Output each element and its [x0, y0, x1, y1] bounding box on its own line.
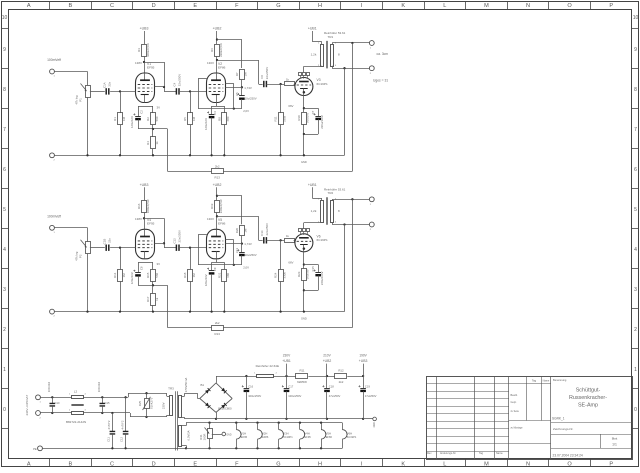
- capacitor C11 4n7/Y2: [106, 413, 115, 448]
- wire pot wiper to C1: [90, 247, 105, 249]
- terminal PE: [33, 446, 42, 451]
- svg-text:R25: R25: [138, 400, 142, 406]
- svg-text:+UB2: +UB2: [213, 183, 222, 187]
- resistor R4 1k to ground: [146, 129, 159, 155]
- svg-text:R10: R10: [297, 115, 301, 121]
- capacitor C10 100n/X2: [47, 381, 60, 413]
- wire V2 anode to C6: [217, 216, 263, 240]
- svg-text:zu Serie: zu Serie: [511, 410, 520, 413]
- svg-text:130V: 130V: [207, 61, 214, 65]
- svg-text:1/1: 1/1: [612, 442, 617, 446]
- svg-text:8: 8: [634, 87, 637, 93]
- svg-text:C10: C10: [55, 401, 60, 405]
- svg-text:V1H: V1H: [241, 431, 246, 435]
- wire cathode V1 tie: [138, 262, 160, 266]
- svg-text:Russenkracher-: Russenkracher-: [569, 395, 607, 401]
- svg-text:Zeichnungs-Nr.: Zeichnungs-Nr.: [553, 427, 574, 431]
- choke L2 B82722 common mode: [66, 390, 87, 424]
- svg-text:O: O: [567, 3, 572, 9]
- svg-text:100k/0,5W: 100k/0,5W: [146, 199, 150, 213]
- resistor R5 1M grid V2: [183, 91, 196, 155]
- svg-text:L: L: [443, 461, 446, 467]
- svg-text:L2: L2: [74, 390, 78, 394]
- svg-text:Änderungs-Nr.: Änderungs-Nr.: [440, 452, 456, 455]
- wire PE bus: [42, 447, 186, 449]
- svg-text:7: 7: [3, 127, 6, 133]
- svg-text:6C19P1: 6C19P1: [347, 435, 357, 439]
- resistor R20 1M screen: [226, 226, 252, 247]
- capacitor C18 47u/250V: [322, 376, 340, 419]
- svg-text:Tag: Tag: [479, 452, 484, 455]
- svg-text:230V: 230V: [162, 402, 166, 409]
- svg-text:9: 9: [3, 47, 6, 53]
- wire secondary bottom: [332, 67, 369, 155]
- choke L1 Reinhoefer 42.64E: [254, 364, 296, 378]
- terminal input J2: [50, 225, 56, 233]
- potentiometer P2 47k log: [75, 240, 91, 261]
- svg-text:560: 560: [155, 116, 159, 121]
- svg-text:GND: GND: [374, 422, 376, 427]
- varistor R25 S10K275: [138, 393, 153, 417]
- svg-text:F: F: [235, 461, 239, 467]
- svg-text:R20: R20: [235, 228, 239, 234]
- resistor R11 6k8/5W dropper: [296, 369, 335, 385]
- terminal speaker - (ch2): [369, 222, 374, 231]
- svg-text:100n/X2: 100n/X2: [47, 381, 51, 392]
- wire TR3 HV secondary bottom: [182, 417, 216, 419]
- heater filament V3H 6C19P1: [279, 423, 294, 449]
- svg-text:4: 4: [634, 247, 637, 253]
- svg-text:+UB2: +UB2: [213, 27, 222, 31]
- wire input to pot: [54, 72, 87, 86]
- svg-text:R12: R12: [338, 369, 344, 373]
- wire g3 V2: [226, 84, 234, 109]
- resistor R12 2k2 dropper: [335, 369, 365, 385]
- svg-text:ca. 3cm: ca. 3cm: [377, 52, 389, 56]
- svg-text:10u/250V: 10u/250V: [245, 253, 257, 257]
- svg-text:100u/250V: 100u/250V: [248, 394, 261, 398]
- heater filament V2H EF86: [258, 423, 269, 449]
- heater filament V1H EF95: [236, 423, 247, 449]
- svg-text:S10K275: S10K275: [149, 397, 153, 409]
- wire shield box V2: [198, 235, 242, 267]
- svg-text:M: M: [484, 3, 489, 9]
- svg-text:C12: C12: [173, 238, 177, 244]
- capacitor C12 22n/250V coupling: [164, 230, 182, 251]
- wire V2 cathode: [212, 103, 225, 107]
- wire pot to ground: [87, 254, 89, 312]
- svg-text:130V: 130V: [207, 217, 214, 221]
- svg-text:120u/16V: 120u/16V: [204, 274, 208, 286]
- capacitor C12 4n7/Y2: [120, 397, 129, 448]
- svg-text:Tag: Tag: [532, 379, 537, 383]
- capacitor C1A 22n input: [102, 81, 111, 94]
- svg-text:10: 10: [2, 15, 8, 21]
- svg-text:G: G: [276, 3, 280, 9]
- svg-text:E: E: [193, 3, 197, 9]
- rectifier bridge B1 B250C800: [200, 383, 232, 413]
- svg-text:2: 2: [634, 327, 637, 333]
- svg-text:3V: 3V: [157, 106, 161, 110]
- svg-text:R8: R8: [217, 117, 221, 121]
- svg-text:Rev: Rev: [427, 452, 432, 455]
- svg-text:SGRK_1: SGRK_1: [552, 417, 565, 421]
- svg-text:GND: GND: [226, 434, 231, 436]
- svg-text:R1: R1: [113, 117, 117, 121]
- wire shield box V2: [198, 79, 242, 110]
- svg-text:1M: 1M: [122, 273, 126, 278]
- svg-text:9: 9: [634, 47, 637, 53]
- svg-text:3: 3: [3, 287, 6, 293]
- svg-text:C8: C8: [140, 266, 144, 270]
- resistor R16 100k/0.5W anode V4: [137, 199, 150, 213]
- svg-text:C: C: [110, 3, 114, 9]
- svg-text:L: L: [443, 3, 446, 9]
- svg-text:V4H: V4H: [305, 431, 310, 435]
- resistor R10 560/5W cathode V3: [297, 113, 310, 156]
- svg-text:B: B: [69, 3, 73, 9]
- resistor R23 560/5W cathode V3: [297, 269, 310, 312]
- svg-text:2,0V: 2,0V: [243, 265, 249, 269]
- resistor R7 1M screen: [226, 70, 252, 90]
- svg-text:220k/0,5W: 220k/0,5W: [219, 199, 223, 213]
- svg-text:330k: 330k: [282, 272, 286, 279]
- svg-text:R13: R13: [215, 332, 221, 336]
- wire secondary top: [332, 42, 369, 171]
- svg-text:4: 4: [3, 247, 6, 253]
- svg-text:Bearb.: Bearb.: [511, 394, 519, 397]
- svg-text:2: 2: [3, 327, 6, 333]
- svg-text:Gepr.: Gepr.: [511, 401, 517, 404]
- svg-text:100n/X2: 100n/X2: [97, 381, 101, 392]
- wire V3 cathode node: [288, 252, 318, 272]
- svg-text:190V: 190V: [359, 354, 367, 358]
- net label +UB3 (ch1): [140, 27, 149, 45]
- svg-text:4n7/Y2: 4n7/Y2: [120, 420, 124, 429]
- svg-text:R3: R3: [137, 48, 141, 52]
- svg-text:V5H: V5H: [326, 431, 331, 435]
- svg-text:EF95: EF95: [241, 435, 248, 439]
- svg-text:210V: 210V: [323, 354, 331, 358]
- svg-text:C19: C19: [365, 385, 370, 389]
- resistor R2 560 cathode: [146, 106, 159, 129]
- heater filament V4H EF95: [300, 423, 312, 449]
- resistor R21 680 cathode V2: [217, 262, 230, 311]
- svg-text:R17: R17: [146, 296, 150, 302]
- wire ground bus (ch1): [54, 154, 344, 164]
- svg-text:Schüttgut-: Schüttgut-: [576, 387, 601, 393]
- title block outline: [426, 376, 633, 460]
- svg-text:C15: C15: [311, 266, 315, 272]
- capacitor C5 10u/250V screen: [235, 87, 257, 113]
- wire anode node: [143, 56, 165, 91]
- svg-text:A: A: [27, 461, 31, 467]
- svg-text:22n: 22n: [107, 81, 111, 86]
- wire g3 V2: [226, 240, 234, 265]
- capacitor C3 120u/16V cathode V2: [204, 106, 217, 155]
- wire secondary bottom: [332, 223, 369, 311]
- wire bridge minus to ground bus: [215, 412, 364, 420]
- net label +UB3 (psu): [359, 354, 368, 376]
- wire after choke bottom: [84, 412, 167, 418]
- wire TR primary to V3 anode: [304, 222, 322, 224]
- svg-text:6,3V/3A: 6,3V/3A: [186, 430, 190, 440]
- svg-text:6C19P1: 6C19P1: [317, 82, 328, 86]
- title block right area: [551, 378, 632, 458]
- capacitor C19 47u/250V: [359, 376, 377, 419]
- svg-text:560/5W: 560/5W: [306, 269, 310, 279]
- wire C1 to grid node: [110, 247, 135, 249]
- svg-text:6C19P1: 6C19P1: [283, 435, 293, 439]
- resistor R9 1k grid stopper: [285, 78, 296, 86]
- svg-text:P: P: [609, 461, 613, 467]
- capacitor C4 22n/250V coupling: [164, 74, 182, 95]
- svg-text:47u/250V: 47u/250V: [329, 394, 341, 398]
- svg-text:EF86: EF86: [218, 222, 226, 226]
- svg-text:330k: 330k: [282, 115, 286, 122]
- wire screen V1 to anode: [155, 86, 165, 88]
- terminal mains L: [36, 395, 42, 404]
- wire C6 to grid stopper: [266, 239, 284, 241]
- svg-text:120u/16V: 120u/16V: [130, 272, 134, 284]
- svg-text:+UB2: +UB2: [323, 359, 332, 363]
- svg-text:O: O: [567, 461, 572, 467]
- resistor R24 330k grid V3: [274, 240, 287, 311]
- svg-text:C5: C5: [235, 92, 239, 96]
- svg-text:10u/250V: 10u/250V: [245, 97, 257, 101]
- svg-text:R2: R2: [146, 117, 150, 121]
- svg-text:66V: 66V: [288, 261, 293, 265]
- heater filament V6H 6C19P1: [342, 423, 357, 449]
- svg-text:3: 3: [634, 287, 637, 293]
- terminal speaker - (ch1): [369, 66, 374, 75]
- transformer TR2 Reinhoefer 53.61: [311, 187, 346, 224]
- svg-text:C1A: C1A: [102, 82, 106, 88]
- svg-text:680: 680: [226, 116, 230, 121]
- svg-text:C2: C2: [140, 110, 144, 114]
- svg-text:0: 0: [3, 407, 6, 413]
- wire heater bottom rail: [186, 447, 342, 449]
- wire V2 cathode: [212, 259, 225, 263]
- resistor R13 2k2 feedback: [168, 321, 353, 336]
- svg-text:120u/16V: 120u/16V: [130, 116, 134, 128]
- svg-text:R11: R11: [299, 369, 304, 373]
- net label +UB2 (psu): [323, 354, 332, 376]
- net label +UB1 (ch1): [308, 27, 322, 42]
- svg-text:1M: 1M: [192, 116, 196, 121]
- svg-text:C12: C12: [120, 437, 124, 442]
- resistor R3 100k/0.5W anode V1: [137, 43, 150, 57]
- tube V2 EF86: [207, 62, 226, 103]
- svg-text:R23: R23: [297, 271, 301, 277]
- svg-text:H: H: [318, 461, 322, 467]
- svg-text:N: N: [526, 461, 530, 467]
- svg-text:230V: 230V: [283, 354, 291, 358]
- svg-text:220u/100V: 220u/100V: [320, 271, 324, 285]
- svg-text:6: 6: [3, 167, 6, 173]
- svg-text:R6: R6: [210, 48, 214, 52]
- svg-text:+UB3: +UB3: [140, 183, 149, 187]
- svg-text:5: 5: [634, 207, 637, 213]
- svg-text:1,74V: 1,74V: [244, 242, 252, 246]
- svg-text:22n: 22n: [107, 238, 111, 243]
- svg-text:2,0V: 2,0V: [243, 109, 249, 113]
- svg-text:100mVeff: 100mVeff: [47, 214, 61, 218]
- svg-text:1: 1: [634, 367, 637, 373]
- capacitor C9 120u/16V cathode V2: [204, 262, 217, 311]
- svg-text:6C19P1: 6C19P1: [317, 238, 328, 242]
- svg-text:EF86: EF86: [326, 435, 333, 439]
- svg-text:560: 560: [155, 272, 159, 277]
- svg-text:R7: R7: [235, 72, 239, 76]
- svg-text:138V: 138V: [135, 217, 142, 221]
- svg-text:R14: R14: [113, 272, 117, 278]
- svg-text:8: 8: [3, 87, 6, 93]
- resistor R17 1k to ground: [146, 285, 159, 311]
- svg-text:B250C800: B250C800: [218, 406, 232, 410]
- capacitor C16 100u/250V reservoir: [242, 376, 262, 419]
- svg-text:C1B: C1B: [102, 239, 106, 245]
- svg-text:2k2: 2k2: [215, 321, 220, 325]
- wire pot to ground: [87, 97, 89, 155]
- svg-text:H: H: [318, 3, 322, 9]
- svg-text:22n/250V: 22n/250V: [265, 223, 269, 235]
- svg-text:R18: R18: [183, 272, 187, 278]
- terminal input ground (ch2): [50, 309, 56, 318]
- svg-text:R21: R21: [217, 272, 221, 278]
- resistor R13 2k2 feedback: [168, 165, 353, 180]
- net label +UB1 (psu): [282, 354, 291, 376]
- svg-text:+UB3: +UB3: [140, 27, 149, 31]
- wire input to pot: [54, 228, 87, 242]
- terminal mains N: [36, 411, 42, 420]
- resistor R15 560 cathode: [146, 262, 159, 285]
- capacitor C15 220u/100V cathode bypass: [304, 266, 324, 291]
- tube V1 EF95: [136, 62, 155, 103]
- svg-text:C14: C14: [260, 230, 264, 236]
- svg-text:D: D: [152, 3, 156, 9]
- svg-text:P1: P1: [78, 98, 82, 102]
- wire C1 to grid node: [110, 90, 135, 92]
- wire C6 to grid stopper: [266, 83, 284, 85]
- ground flag psu: [363, 417, 376, 427]
- svg-text:EF95: EF95: [147, 222, 155, 226]
- svg-text:7: 7: [634, 127, 637, 133]
- svg-text:A: A: [27, 3, 31, 9]
- svg-text:EF95: EF95: [147, 65, 155, 69]
- svg-text:47u/250V: 47u/250V: [365, 394, 377, 398]
- svg-text:V6H: V6H: [347, 431, 352, 435]
- svg-text:B1: B1: [201, 383, 205, 387]
- svg-text:R13: R13: [215, 176, 221, 180]
- tube V5 EF86: [207, 218, 226, 259]
- svg-text:100R: 100R: [202, 434, 206, 441]
- potentiometer P1 47k log: [75, 84, 91, 105]
- svg-text:P: P: [609, 3, 613, 9]
- capacitor C2 120u/16V cathode bypass: [130, 106, 143, 129]
- capacitor C15 100n/X2: [97, 381, 110, 413]
- svg-text:+UB1: +UB1: [308, 183, 317, 187]
- capacitor C17 100u/250V: [282, 375, 302, 419]
- svg-text:R4: R4: [146, 141, 150, 145]
- svg-text:V2H: V2H: [262, 431, 267, 435]
- svg-text:2k2: 2k2: [215, 165, 220, 169]
- svg-text:1M: 1M: [192, 273, 196, 278]
- wire TR3 heater pins: [182, 423, 187, 450]
- capacitor C7 220u/100V cathode bypass: [304, 110, 324, 134]
- svg-text:C15: C15: [105, 401, 110, 405]
- svg-text:+UB1: +UB1: [308, 27, 317, 31]
- wire V2 anode node: [216, 38, 242, 73]
- svg-text:C17: C17: [288, 385, 293, 389]
- capacitor C1B 22n input: [102, 238, 111, 251]
- svg-text:560/5W: 560/5W: [306, 113, 310, 123]
- wire C4 to V2 grid: [179, 247, 206, 249]
- wire V2 anode to C6: [217, 60, 263, 85]
- wire TR3 primary pins: [167, 393, 170, 417]
- svg-text:R19: R19: [210, 203, 214, 209]
- svg-text:10: 10: [633, 15, 639, 21]
- svg-text:C3: C3: [213, 111, 217, 115]
- svg-text:EF95: EF95: [305, 435, 312, 439]
- ground flag heater: [222, 432, 232, 436]
- terminal input J1: [50, 69, 56, 77]
- heater filament V5H EF86: [321, 423, 332, 449]
- wire TR3 HV secondary top to bridge: [182, 393, 200, 398]
- svg-text:22n/250V: 22n/250V: [178, 230, 182, 242]
- capacitor C8 120u/16V cathode bypass: [130, 262, 143, 285]
- svg-text:V3H: V3H: [283, 431, 288, 435]
- svg-text:D: D: [152, 461, 156, 467]
- resistor R19 220k/0.5W anode V2: [210, 199, 223, 213]
- svg-text:F: F: [235, 3, 239, 9]
- svg-text:66V: 66V: [288, 104, 293, 108]
- svg-text:5: 5: [3, 207, 6, 213]
- svg-text:+UB1: +UB1: [282, 359, 291, 363]
- resistor R18 1M grid V2: [183, 248, 196, 312]
- tube V3 6C19P output triode: [295, 66, 328, 95]
- net label +UB2 (ch1): [213, 27, 222, 45]
- svg-text:Name: Name: [496, 452, 503, 455]
- transformer TR1 Reinhoefer 53.61: [311, 31, 346, 68]
- wire anode node: [143, 212, 165, 247]
- terminal speaker + (ch2): [369, 197, 374, 206]
- svg-text:M: M: [484, 461, 489, 467]
- wire secondary top: [332, 198, 369, 327]
- svg-text:EF86: EF86: [262, 435, 269, 439]
- svg-text:GND: GND: [301, 160, 307, 164]
- svg-text:C11: C11: [106, 437, 110, 442]
- svg-text:Uges = 31: Uges = 31: [373, 79, 388, 83]
- svg-text:C: C: [110, 461, 114, 467]
- svg-text:R5: R5: [183, 117, 187, 121]
- wire C4 to V2 grid: [179, 90, 206, 92]
- svg-text:Reinhöfer 42.64E: Reinhöfer 42.64E: [256, 364, 279, 368]
- svg-text:1M: 1M: [244, 228, 248, 233]
- svg-text:1k: 1k: [155, 141, 159, 145]
- resistor R8 680 cathode V2: [217, 106, 230, 155]
- svg-text:R16: R16: [137, 203, 141, 209]
- svg-text:TR3: TR3: [168, 386, 174, 390]
- wire ground bus (ch2): [54, 310, 344, 320]
- svg-text:2k2: 2k2: [339, 380, 344, 384]
- svg-text:100u/250V: 100u/250V: [288, 394, 301, 398]
- potentiometer R31 100R humdinger: [199, 423, 222, 449]
- tube V6 6C19P output triode: [295, 223, 328, 252]
- svg-text:1,2k: 1,2k: [311, 53, 317, 57]
- svg-text:zu Montage: zu Montage: [511, 427, 524, 430]
- resistor R6 220k/0.5W anode V2: [210, 43, 223, 57]
